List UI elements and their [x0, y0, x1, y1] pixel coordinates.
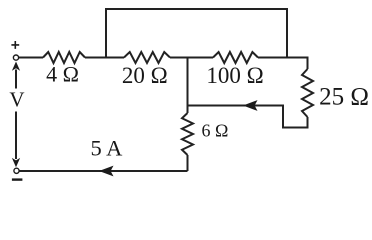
wire from node B down to 6Ω through node D [187, 58, 189, 114]
arrowhead V up (toward + terminal) [12, 62, 20, 71]
svg-text:6 Ω: 6 Ω [202, 121, 229, 141]
wire from + terminal to resistor 4Ω [18, 57, 43, 59]
wire voltage arrow upper segment [15, 70, 17, 89]
svg-text:100 Ω: 100 Ω [206, 63, 263, 88]
resistor 20Ω [124, 52, 170, 63]
svg-text:25 Ω: 25 Ω [319, 84, 369, 111]
resistor 25Ω [302, 69, 313, 117]
svg-text:V: V [9, 88, 24, 112]
resistor 4Ω [43, 52, 85, 63]
resistor 100Ω [213, 52, 258, 63]
arrowhead V down (toward - terminal) [12, 158, 20, 167]
arrowhead current 5A on bottom rail (pointing left) [99, 166, 114, 177]
terminal node + (open circle) [13, 55, 18, 60]
wire from 100Ω through node C to right corner down to 25Ω [258, 58, 308, 70]
wire from 20Ω through node B to 100Ω [170, 57, 213, 59]
wire from 6Ω bottom to bottom rail [187, 155, 189, 171]
arrowhead current into node D (pointing left) [243, 100, 258, 111]
wire bottom rail to - terminal [17, 170, 188, 172]
polarity mark + [11, 41, 19, 49]
svg-text:20 Ω: 20 Ω [122, 63, 168, 88]
wire voltage arrow lower segment [15, 112, 17, 160]
resistor 6Ω [182, 113, 193, 155]
polarity mark - [12, 178, 23, 180]
terminal node - (open circle) [14, 168, 19, 173]
svg-text:4 Ω: 4 Ω [46, 62, 79, 87]
wire top loop from node A to node C [106, 9, 287, 58]
wire from 25Ω bottom, step left/up, to node D on 6Ω branch [188, 106, 308, 128]
svg-text:5 A: 5 A [90, 136, 123, 161]
wire from 4Ω through node A to 20Ω [85, 57, 124, 59]
